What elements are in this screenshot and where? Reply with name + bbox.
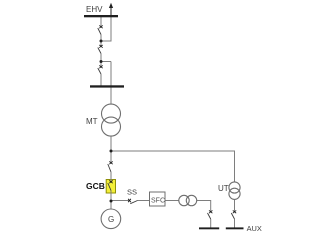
svg-text:EHV: EHV	[86, 5, 103, 14]
svg-text:SS: SS	[127, 188, 137, 197]
svg-text:AUX: AUX	[247, 224, 262, 233]
svg-text:G: G	[108, 215, 114, 224]
svg-text:SFC: SFC	[151, 197, 165, 204]
svg-text:GCB: GCB	[86, 181, 105, 191]
svg-text:UT: UT	[218, 184, 229, 193]
svg-text:MT: MT	[86, 117, 98, 126]
